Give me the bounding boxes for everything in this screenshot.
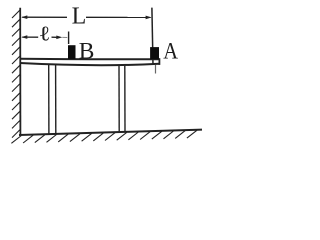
floor hatching bbox=[11, 130, 197, 143]
dimension l: faint tip extension bbox=[62, 36, 67, 38]
table leg left (back line) bbox=[55, 65, 57, 134]
dimension L: line right segment bbox=[86, 16, 151, 18]
wall bbox=[19, 8, 21, 136]
table top right edge bbox=[158, 58, 160, 65]
block A bbox=[150, 47, 159, 59]
dimension l: left arrowhead bbox=[21, 35, 27, 39]
witness line for block B left edge bbox=[68, 32, 70, 45]
witness line right (block A left edge) bbox=[152, 8, 153, 65]
svg-text:ℓ: ℓ bbox=[39, 22, 51, 45]
svg-text:L: L bbox=[72, 3, 87, 29]
floor bbox=[19, 130, 202, 135]
table leg right (back line) bbox=[124, 66, 126, 132]
svg-text:A: A bbox=[163, 38, 178, 63]
table top lower line bbox=[20, 63, 159, 65]
table top upper line bbox=[20, 58, 159, 61]
dimension L: right arrowhead bbox=[146, 16, 152, 20]
table leg left (front line) bbox=[48, 65, 50, 135]
dimension l: line left segment bbox=[22, 36, 38, 38]
svg-text:B: B bbox=[79, 38, 95, 64]
table leg right (front line) bbox=[118, 66, 120, 132]
block B bbox=[68, 45, 76, 59]
short edge line below table right end bbox=[155, 65, 157, 74]
dimension L: left arrowhead bbox=[21, 15, 27, 19]
dimension l: line right segment bbox=[52, 36, 57, 38]
dimension L: line left segment bbox=[22, 16, 67, 18]
wall hatching bbox=[12, 10, 21, 138]
dimension l: right arrowhead bbox=[56, 36, 62, 40]
